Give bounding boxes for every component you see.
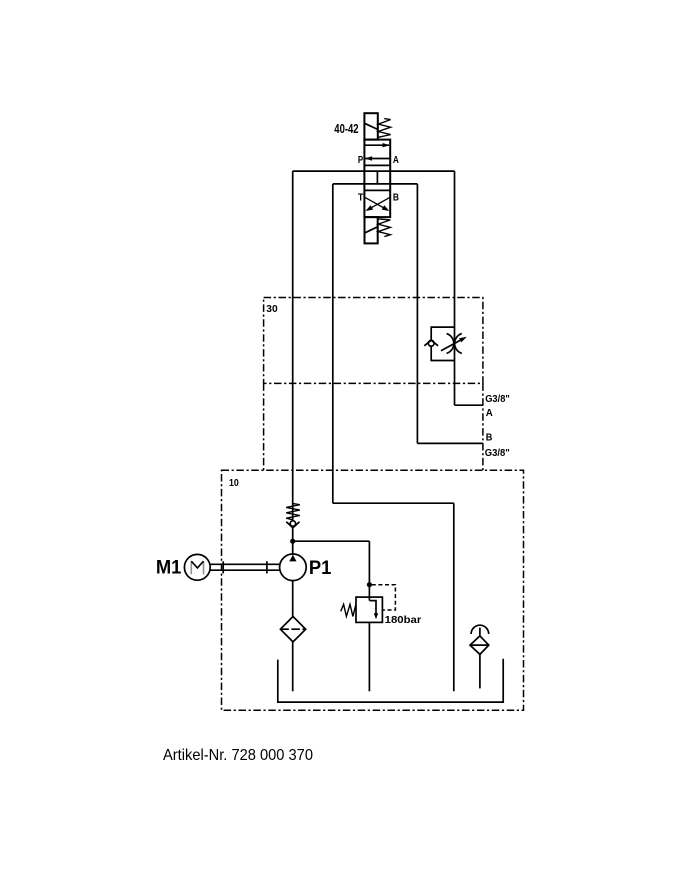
suction filter mesh dashed [280,628,305,630]
valve arrow P-to-A [365,143,390,147]
breather stem [479,628,481,636]
valve arrow A-to-P [365,156,390,160]
relief valve spring [341,604,356,616]
flow control check valve ball [428,340,434,346]
throttle adjust arrow [441,340,461,351]
breather filter diamond [470,636,489,655]
spring top [378,119,390,138]
electric motor M1 circle [184,554,210,580]
directional valve 40-42 body [364,140,390,218]
svg-text:10: 10 [229,478,239,489]
throttle arc right [455,334,462,354]
svg-text:P1: P1 [309,558,332,579]
breather drain into tank [479,654,481,688]
wire pump outlet to relief valve [293,540,370,542]
throttle arc left [447,334,454,354]
throttle arrow head [459,337,467,343]
svg-text:40-42: 40-42 [334,122,358,136]
svg-text:B: B [393,192,399,203]
check valve ball [290,521,295,526]
wire B horizontal to port B [417,442,483,444]
svg-text:Artikel-Nr. 728 000 370: Artikel-Nr. 728 000 370 [163,747,313,764]
relief pilot dashed line [372,585,396,610]
spring bottom [378,219,390,237]
coupling tick right [266,561,268,573]
wire pump suction vertical [292,581,294,617]
suction filter diamond [280,617,305,642]
wire suction filter to tank [292,642,294,691]
coupling tick left [222,561,224,573]
wire T port line horizontal [333,183,418,185]
pump outlet triangle [289,555,296,562]
check valve spring above pump [286,504,300,520]
power unit boundary box 10 dash-dot [222,470,524,710]
valve crossed arrow 2 [365,197,389,211]
flow control valve bypass rectangle [431,327,454,340]
wire A vertical [454,171,456,405]
wire T horizontal to return [333,502,454,504]
wire P vertical down to pump [292,171,294,554]
breather filler cap arc [471,625,489,634]
boundary vertical left between 30 and 10 [263,383,265,470]
svg-text:30: 30 [266,304,278,315]
junction node relief pilot [367,582,372,587]
valve position divider upper [364,164,390,166]
solenoid box bottom [365,217,378,243]
relief valve internal arrow [370,601,376,614]
pump P1 circle [280,554,307,581]
tank [278,659,503,702]
motor M glyph [191,561,203,574]
assembly boundary box 30 dash-dot [222,298,524,711]
valve position divider lower [364,189,390,191]
svg-text:T: T [358,192,364,203]
solenoid box top [364,113,377,139]
wire relief valve drain to tank [368,622,370,691]
valve center position connector [376,171,378,185]
flow control check valve seat [424,340,438,346]
wire B vertical [416,184,418,444]
wire P port line horizontal [293,170,455,172]
solenoid diagonal bottom [365,227,378,233]
wire T vertical down [332,184,334,503]
valve crossed arrow 1 [365,197,389,211]
relief valve box [356,597,382,622]
svg-text:A: A [486,408,493,419]
svg-text:180bar: 180bar [385,614,422,626]
boundary vertical right between 30 and 10 [482,383,484,470]
wire A horizontal to port A [455,404,483,406]
svg-text:M1: M1 [156,558,182,579]
svg-text:G3/8": G3/8" [485,394,510,405]
wire return vertical into tank [453,503,455,691]
junction node pump outlet [290,539,295,544]
motor shaft [210,563,280,565]
solenoid diagonal top [365,123,378,129]
svg-text:B: B [486,433,493,444]
check valve seat [286,522,299,528]
wire relief valve inlet vertical [368,541,370,600]
svg-text:P: P [358,155,364,166]
svg-text:A: A [393,155,399,166]
breather filter line [470,644,489,646]
svg-text:G3/8": G3/8" [485,448,510,459]
